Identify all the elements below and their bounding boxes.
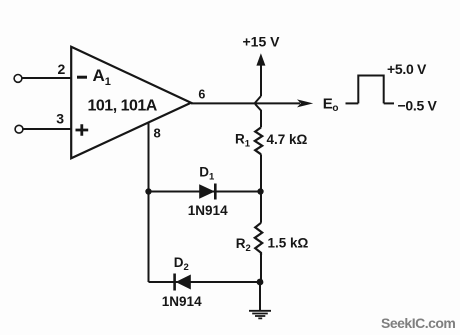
resistor R1 bbox=[255, 127, 262, 154]
svg-text:1N914: 1N914 bbox=[188, 203, 228, 218]
wire pin 2 bbox=[22, 77, 71, 79]
svg-text:−0.5 V: −0.5 V bbox=[398, 98, 438, 114]
ground bbox=[249, 311, 271, 319]
node dot pin8/D1 bbox=[145, 188, 151, 194]
+15V supply wire bbox=[260, 65, 262, 96]
wire R2 top bbox=[260, 192, 262, 223]
wire junction jog at output node bbox=[255, 96, 261, 127]
inverting input marker bbox=[77, 76, 87, 79]
svg-text:8: 8 bbox=[154, 126, 161, 141]
svg-text:+15 V: +15 V bbox=[243, 34, 281, 50]
resistor R2 bbox=[255, 223, 262, 255]
svg-text:2: 2 bbox=[58, 61, 66, 77]
svg-text:A1: A1 bbox=[93, 66, 111, 88]
non-inverting input marker bbox=[76, 124, 89, 135]
arrow to Eo bbox=[297, 99, 313, 107]
input terminal pin 2 bbox=[14, 75, 22, 83]
waveform pulse bbox=[358, 76, 383, 104]
input terminal pin 3 bbox=[15, 125, 23, 133]
svg-text:R2: R2 bbox=[236, 236, 251, 254]
svg-text:Eo: Eo bbox=[323, 96, 339, 114]
svg-text:6: 6 bbox=[198, 88, 205, 102]
svg-text:1.5 kΩ: 1.5 kΩ bbox=[268, 236, 309, 251]
waveform baseline right bbox=[384, 102, 394, 104]
node dot R1/R2/D1 bbox=[257, 188, 263, 194]
svg-text:3: 3 bbox=[56, 111, 64, 127]
svg-text:101, 101A: 101, 101A bbox=[88, 97, 158, 114]
wire R1 to node bbox=[260, 154, 262, 191]
waveform baseline left bbox=[346, 102, 359, 104]
wire left vertical to D2 bbox=[148, 192, 150, 283]
wire D2 line bbox=[149, 281, 261, 283]
svg-text:SeekIC.com: SeekIC.com bbox=[381, 315, 455, 331]
wire to ground bbox=[259, 282, 261, 311]
svg-text:R1: R1 bbox=[235, 131, 251, 149]
diode D1 bbox=[199, 184, 215, 199]
wire pin 8 bbox=[148, 123, 150, 192]
svg-text:4.7 kΩ: 4.7 kΩ bbox=[267, 132, 308, 147]
svg-text:1N914: 1N914 bbox=[162, 294, 202, 309]
op-amp A1 bbox=[71, 47, 191, 159]
diode D2 cathode bar bbox=[173, 274, 176, 291]
svg-text:D2: D2 bbox=[174, 255, 189, 273]
wire pin 3 bbox=[23, 128, 71, 130]
+15V arrowhead bbox=[256, 53, 265, 65]
wire R2 to ground node bbox=[260, 255, 262, 282]
node dot D2/ground bbox=[257, 279, 264, 286]
svg-text:+5.0 V: +5.0 V bbox=[387, 61, 427, 77]
diode D2 bbox=[176, 275, 191, 290]
svg-text:D1: D1 bbox=[199, 164, 215, 182]
wire D1 line bbox=[149, 191, 261, 193]
diode D1 cathode bar bbox=[214, 184, 217, 200]
wire op-amp output bbox=[191, 102, 300, 104]
